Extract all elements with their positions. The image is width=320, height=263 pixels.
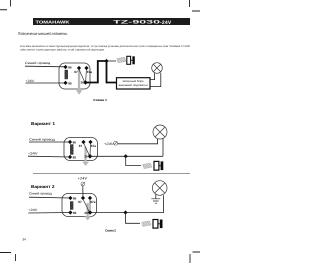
relay K3 pin 30	[84, 210, 92, 215]
label: +24V feed to lamp	[104, 141, 118, 146]
svg-text:обеспечит полноценную работу э: обеспечит полноценную работу этой сервис…	[20, 49, 105, 52]
svg-text:85: 85	[73, 155, 77, 159]
fuse F1	[117, 56, 135, 64]
relay K3 switch arm	[83, 200, 89, 211]
svg-text:TOMAHAWK: TOMAHAWK	[36, 20, 70, 25]
relay K3 coil	[70, 202, 73, 210]
wire +24V down to pin 87	[82, 186, 84, 198]
wire: blue wire to pin 86	[29, 196, 70, 199]
svg-text:85: 85	[73, 211, 77, 215]
intro paragraph	[20, 45, 191, 51]
svg-text:Синий провод: Синий провод	[25, 61, 50, 65]
ground	[151, 199, 160, 203]
relay K3 pin 87	[78, 196, 85, 204]
junction node	[123, 210, 127, 214]
svg-text:30: 30	[84, 155, 88, 159]
svg-text:+24V: +24V	[78, 177, 88, 181]
wire pin 30 to lamp right lead	[90, 195, 164, 212]
relay K3 pin 87a	[88, 196, 96, 204]
wire: +24V to pin 85	[28, 155, 70, 158]
svg-text:Подключение внешней подсветки.: Подключение внешней подсветки.	[18, 31, 68, 36]
relay K1 grey arrow	[76, 70, 83, 95]
header bar	[33, 18, 190, 26]
svg-text:Схема 2: Схема 2	[105, 229, 116, 233]
fuse F3	[142, 220, 163, 229]
fuse F2	[143, 161, 164, 170]
svg-text:TZ-9030: TZ-9030	[113, 20, 161, 26]
svg-text:Синий провод: Синий провод	[29, 137, 55, 141]
relay K2 pin 86	[68, 140, 76, 145]
thick wire from pin 30 up to fuse	[86, 61, 108, 83]
svg-text:34: 34	[22, 238, 26, 242]
relay K2 grey arrow	[82, 147, 89, 166]
relay K3 contact 87a-30	[89, 198, 91, 213]
svg-text:87: 87	[79, 144, 83, 148]
wire: +24V to pin 85	[28, 212, 70, 215]
relay K3 body	[62, 194, 97, 217]
wire box to lamp right lead	[150, 73, 161, 87]
thin wire to fuse F1	[107, 60, 116, 62]
wire branch to fuse F3	[126, 213, 141, 224]
svg-text:Вариант 1: Вариант 1	[31, 121, 56, 126]
wire lamp right lead down	[162, 138, 164, 156]
relay K1 pin 87a	[84, 66, 92, 74]
relay K1 switch arm	[79, 70, 84, 82]
relay K3 grey arrow	[84, 203, 91, 220]
svg-text:87a: 87a	[91, 144, 96, 148]
svg-text:внешней подсветки: внешней подсветки	[119, 84, 149, 87]
svg-text:86: 86	[73, 196, 77, 200]
relay K1 contact 87a-30	[85, 68, 88, 83]
svg-text:30: 30	[81, 81, 85, 85]
lighting unit box	[117, 78, 151, 89]
svg-text:Синий провод: Синий провод	[29, 191, 52, 195]
svg-text:87a: 87a	[87, 70, 92, 74]
lamp L1	[152, 63, 163, 74]
relay K2 pin 87a	[88, 140, 96, 148]
wire pin 30 to lamp	[90, 155, 163, 157]
svg-text:Схема 1: Схема 1	[93, 98, 107, 102]
svg-text:87a: 87a	[90, 200, 95, 204]
svg-text:87: 87	[78, 200, 82, 204]
relay K1 body	[59, 63, 90, 89]
relay K1 pin 86	[63, 65, 72, 70]
relay K2 body	[64, 138, 98, 161]
wire: blue wire to pin 86	[29, 141, 70, 143]
svg-text:30: 30	[84, 211, 88, 215]
relay K1 pin 85	[63, 81, 72, 86]
wire +24V to lamp left lead	[118, 139, 158, 144]
relay K2 pin 85	[68, 155, 76, 160]
svg-text:+24V: +24V	[28, 152, 39, 156]
lamp L2	[153, 125, 167, 139]
svg-text:+24V: +24V	[26, 79, 35, 83]
lamp L3	[152, 181, 167, 196]
wire branch to fuse F2	[126, 156, 141, 165]
svg-text:+24V: +24V	[28, 208, 38, 212]
relay K3 pin 86	[68, 196, 76, 201]
relay K1 pin 30	[81, 80, 88, 85]
relay K2 pin 87	[79, 140, 86, 148]
relay K2 pin 30	[84, 154, 92, 159]
svg-text:86: 86	[73, 140, 77, 144]
wire box to lamp left lead	[150, 73, 155, 80]
svg-text:85: 85	[68, 81, 72, 85]
svg-text:Штатный блок: Штатный блок	[123, 80, 145, 83]
wire: +24V to pin 85	[26, 82, 66, 84]
relay K2 coil	[70, 145, 73, 155]
relay K2 switch arm	[84, 144, 89, 156]
section separator	[33, 173, 190, 175]
relay K3 pin 85	[68, 210, 76, 215]
svg-text:87: 87	[74, 70, 78, 74]
relay K1 coil	[65, 70, 68, 79]
junction node	[124, 154, 128, 158]
thick wire branch to lighting unit box	[107, 61, 117, 83]
relay K1 pin 87	[74, 66, 81, 74]
svg-text:86: 86	[68, 65, 72, 69]
wire: blue wire to pin 86	[25, 65, 66, 68]
svg-text:-24V: -24V	[160, 20, 172, 26]
relay K2 contact 87a-30	[89, 142, 92, 156]
wire lamp left lead to ground	[155, 195, 157, 199]
svg-text:+24V: +24V	[104, 142, 114, 146]
label: +24V top feed	[78, 177, 88, 186]
junction node	[104, 59, 108, 63]
svg-text:Вариант 2: Вариант 2	[31, 184, 55, 189]
